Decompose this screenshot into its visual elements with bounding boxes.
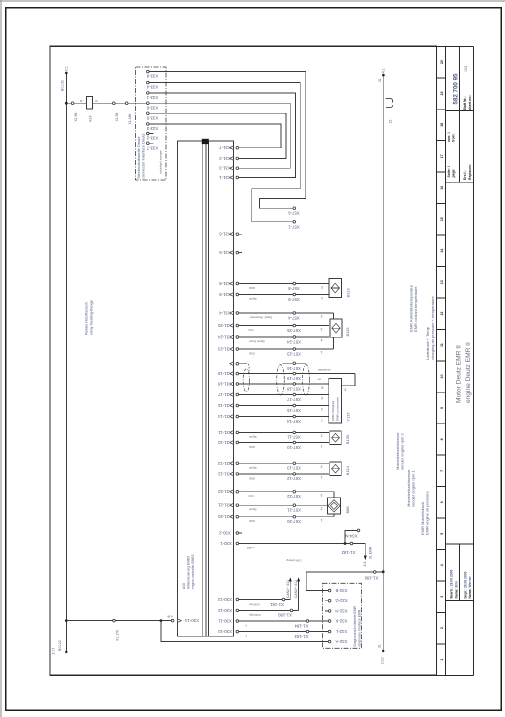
A40 connector cap bbox=[202, 139, 209, 144]
svg-text:X1-183: X1-183 bbox=[294, 634, 308, 639]
svg-text:Seite: 1: Seite: 1 bbox=[447, 165, 451, 177]
svg-text:9: 9 bbox=[440, 407, 444, 409]
svg-text:B130: B130 bbox=[345, 434, 350, 444]
node 31 top bbox=[382, 74, 385, 77]
svg-text:X32-K: X32-K bbox=[335, 619, 347, 624]
junction X34-N branch bbox=[344, 542, 347, 545]
svg-text:1: 1 bbox=[320, 350, 322, 354]
svg-text:EMR Stellglied: EMR Stellglied bbox=[331, 400, 335, 421]
svg-text:CAN2+ 4:11: CAN2+ 4:11 bbox=[294, 580, 298, 598]
A40 connector trunk line bbox=[232, 141, 234, 636]
svg-text:Replaces:: Replaces: bbox=[468, 164, 472, 180]
svg-text:X57-6: X57-6 bbox=[288, 211, 300, 216]
svg-text:page:: page: bbox=[451, 168, 455, 177]
svg-text:CAN2− 4:11: CAN2− 4:11 bbox=[286, 580, 290, 598]
svg-text:X57-14: X57-14 bbox=[286, 419, 300, 424]
svg-text:X31-11: X31-11 bbox=[218, 430, 232, 435]
svg-text:5: 5 bbox=[440, 533, 444, 535]
svg-text:6: 6 bbox=[440, 501, 444, 503]
svg-text:18: 18 bbox=[440, 123, 444, 127]
svg-text:2:17: 2:17 bbox=[52, 648, 56, 655]
svg-text:31 EMR: 31 EMR bbox=[368, 546, 372, 559]
pin X30-11 wire to X32-K bbox=[218, 619, 329, 627]
svg-text:X31-3: X31-3 bbox=[219, 166, 231, 171]
svg-text:X31-25: X31-25 bbox=[217, 323, 231, 328]
svg-text:X30-14: X30-14 bbox=[184, 618, 198, 623]
svg-text:connector interface Deutz: connector interface Deutz bbox=[140, 133, 145, 179]
svg-text:X1:186: X1:186 bbox=[128, 114, 132, 125]
svg-text:X57-15: X57-15 bbox=[286, 408, 300, 413]
title/scale column borders bbox=[445, 46, 447, 675]
svg-text:13: 13 bbox=[440, 280, 444, 284]
svg-text:X33-6: X33-6 bbox=[146, 105, 158, 110]
svg-text:GND: GND bbox=[249, 352, 255, 356]
wire battery to X30-14 bbox=[66, 620, 171, 622]
svg-text:EMR engine oil pressure: EMR engine oil pressure bbox=[425, 490, 430, 535]
node B01 top bbox=[65, 72, 68, 75]
svg-text:X33-3: X33-3 bbox=[146, 126, 158, 131]
pin X31-6 (stub) bbox=[219, 232, 242, 237]
connector pin X1:96 (right) bbox=[113, 102, 116, 105]
Y137 pin5 elbow bbox=[341, 374, 355, 386]
svg-text:X32-G: X32-G bbox=[335, 598, 348, 603]
node B01 bottom bbox=[65, 651, 67, 653]
svg-text:CAN-Leitung: CAN-Leitung bbox=[286, 559, 301, 563]
svg-text:X31-2: X31-2 bbox=[219, 156, 231, 161]
connector pin X1:179 bbox=[113, 619, 116, 622]
B88 fan-in elbows bbox=[333, 492, 335, 498]
actuator Y137 rows bbox=[217, 371, 355, 381]
svg-text:X31-21: X31-21 bbox=[217, 503, 231, 508]
svg-text:17: 17 bbox=[440, 154, 444, 158]
svg-text:2: 2 bbox=[321, 285, 323, 289]
svg-text:X57-10: X57-10 bbox=[286, 445, 300, 450]
svg-text:EMR coolant temperature: EMR coolant temperature bbox=[413, 286, 418, 332]
connector pin X1-183 bbox=[306, 630, 309, 633]
svg-text:3: 3 bbox=[320, 327, 322, 331]
svg-text:X31-7: X31-7 bbox=[219, 145, 231, 150]
svg-text:Name: Werner: Name: Werner bbox=[468, 575, 472, 598]
title block cell dividers bbox=[446, 110, 474, 112]
svg-text:Motorsteuerung EMR2: Motorsteuerung EMR2 bbox=[186, 556, 190, 589]
svg-text:2: 2 bbox=[320, 434, 322, 438]
svg-text:X57-12: X57-12 bbox=[286, 476, 300, 481]
junction at ECU supply wire bbox=[65, 619, 68, 622]
svg-text:X30-12: X30-12 bbox=[217, 608, 231, 613]
oil pressure sensor B88 bbox=[320, 493, 349, 522]
drawing frame bbox=[50, 46, 437, 675]
svg-text:X33-1: X33-1 bbox=[146, 95, 158, 100]
connector pin X1-181 bbox=[282, 598, 285, 601]
connector pin X57-1 bbox=[288, 221, 300, 230]
A40 internal connector lines bbox=[201, 141, 203, 636]
arrow down 31 EMR bbox=[364, 556, 367, 561]
pin X31-3 bbox=[219, 166, 239, 171]
svg-text:B115: B115 bbox=[345, 327, 350, 337]
connector pin X1:186 bbox=[125, 102, 128, 105]
svg-text:16: 16 bbox=[440, 186, 444, 190]
svg-text:X57-18: X57-18 bbox=[286, 386, 300, 391]
svg-text:B88: B88 bbox=[345, 506, 350, 514]
pin X30-2 (stub) bbox=[219, 531, 242, 536]
svg-text:Bearb.: 28.06.2006: Bearb.: 28.06.2006 bbox=[450, 570, 454, 599]
connector pin X1-186 bbox=[374, 571, 377, 574]
connector pin X1-184 bbox=[306, 620, 309, 623]
svg-text:Signal: Signal bbox=[249, 466, 257, 470]
svg-text:X31-13: X31-13 bbox=[217, 461, 231, 466]
svg-text:CAN high: CAN high bbox=[249, 613, 261, 617]
connector pin X33-6 bbox=[146, 102, 158, 110]
svg-text:X31-22: X31-22 bbox=[217, 489, 231, 494]
svg-text:diagnosis interface EMR: diagnosis interface EMR bbox=[358, 609, 362, 646]
svg-text:engine-controller EMR2: engine-controller EMR2 bbox=[191, 554, 195, 589]
frame column scale numbers bbox=[440, 60, 444, 661]
svg-text:X31-5: X31-5 bbox=[219, 250, 231, 255]
pin X30-12 CAN wire bbox=[217, 608, 298, 617]
svg-text:11: 11 bbox=[440, 343, 444, 347]
svg-text:2: 2 bbox=[440, 627, 444, 629]
svg-text:GND: GND bbox=[249, 286, 255, 290]
svg-text:X32-L: X32-L bbox=[335, 629, 347, 634]
branch to pin X34-N bbox=[345, 531, 357, 544]
svg-text:In: In bbox=[320, 385, 323, 389]
svg-text:sw: sw bbox=[318, 378, 321, 381]
svg-text:X32-H: X32-H bbox=[335, 608, 347, 613]
svg-text:15: 15 bbox=[440, 217, 444, 221]
svg-text:X31-23: X31-23 bbox=[217, 347, 231, 352]
svg-text:X30-1: X30-1 bbox=[220, 541, 232, 546]
pin X31-1 bbox=[219, 175, 239, 180]
svg-text:X30-11: X30-11 bbox=[218, 619, 232, 624]
svg-text:X57-9: X57-9 bbox=[288, 297, 300, 302]
svg-text:X31-19: X31-19 bbox=[217, 371, 231, 376]
pin X30-10 wire to X32-L bbox=[217, 629, 328, 637]
oil pressure sensor B88 rows bbox=[217, 489, 334, 499]
svg-text:Diagnoseschnittstelle EMR: Diagnoseschnittstelle EMR bbox=[353, 605, 357, 646]
svg-text:X31-18: X31-18 bbox=[217, 382, 231, 387]
charge pressure sensor B115 bbox=[320, 314, 350, 354]
svg-text:GND: GND bbox=[249, 476, 255, 480]
svg-text:14: 14 bbox=[440, 249, 444, 253]
svg-text:B114: B114 bbox=[345, 465, 350, 475]
svg-text:von: 1: von: 1 bbox=[447, 132, 451, 142]
wire X33 to X31-7 loop bbox=[149, 124, 281, 148]
svg-text:B113: B113 bbox=[345, 288, 350, 298]
svg-text:X32-B: X32-B bbox=[335, 588, 347, 593]
svg-text:Signal_Druck: Signal_Druck bbox=[248, 340, 265, 344]
svg-text:X33-4: X33-4 bbox=[146, 85, 158, 90]
svg-text:Name: Birk: Name: Birk bbox=[454, 581, 458, 599]
svg-text:1: 1 bbox=[320, 475, 322, 479]
svg-text:sheet no.:: sheet no.: bbox=[468, 94, 472, 110]
diagnosis pin X32-K bbox=[328, 619, 347, 624]
svg-text:X1-181: X1-181 bbox=[269, 602, 283, 607]
wire X33 to X31-2 loop bbox=[149, 113, 286, 158]
svg-text:4: 4 bbox=[320, 338, 322, 342]
svg-text:X57-16: X57-16 bbox=[286, 366, 300, 371]
svg-text:B01:22: B01:22 bbox=[58, 640, 62, 651]
svg-text:20: 20 bbox=[440, 60, 444, 64]
svg-text:Blatt Nr.:: Blatt Nr.: bbox=[463, 96, 467, 110]
svg-text:Y137: Y137 bbox=[346, 412, 351, 422]
engine controller A40 box bbox=[178, 141, 234, 636]
diagnosis pin X32-B bbox=[328, 588, 347, 593]
pin X31-7 bbox=[219, 145, 239, 150]
svg-text:Signal: Signal bbox=[249, 435, 257, 439]
svg-text:ser.weiss: ser.weiss bbox=[320, 368, 331, 371]
svg-text:1: 1 bbox=[320, 518, 322, 522]
svg-text:X33-5: X33-5 bbox=[146, 115, 158, 120]
svg-text:+ wire: + wire bbox=[246, 546, 254, 550]
connector pin X33-5 bbox=[146, 112, 158, 120]
wire X33 to X31-3 loop bbox=[149, 103, 290, 168]
svg-text:Signal: Signal bbox=[249, 508, 257, 512]
svg-text:X31-8: X31-8 bbox=[219, 281, 231, 286]
svg-text:X57-4: X57-4 bbox=[288, 315, 300, 320]
svg-text:K14: K14 bbox=[89, 115, 93, 121]
svg-text:B01:32: B01:32 bbox=[61, 80, 65, 91]
svg-text:sender engine rpm 1: sender engine rpm 1 bbox=[411, 470, 416, 507]
svg-text:charging air pressure + temper: charging air pressure + temperature bbox=[430, 296, 435, 360]
svg-text:X1:96: X1:96 bbox=[115, 113, 119, 122]
svg-text:X57-1: X57-1 bbox=[288, 224, 300, 229]
svg-text:EMR commander: EMR commander bbox=[336, 397, 340, 421]
diagnosis pin X32-H bbox=[325, 608, 347, 613]
svg-text:X31-6: X31-6 bbox=[219, 232, 231, 237]
diagnosis pin X32-A bbox=[328, 639, 347, 644]
connector pin X33-1 bbox=[146, 92, 158, 100]
connector pin X1:96 (left) bbox=[71, 102, 74, 105]
svg-text:1: 1 bbox=[440, 659, 444, 661]
svg-text:Signal: Signal bbox=[249, 297, 257, 301]
scan edge artifact line top bbox=[0, 0, 505, 2]
svg-text:X57-25: X57-25 bbox=[286, 328, 300, 333]
svg-text:from:: from: bbox=[451, 133, 455, 142]
svg-text:X31-1: X31-1 bbox=[219, 175, 231, 180]
svg-text:X1-182: X1-182 bbox=[341, 550, 355, 555]
svg-text:19: 19 bbox=[440, 92, 444, 96]
svg-text:X32-A: X32-A bbox=[335, 639, 347, 644]
svg-text:Ers.f.:: Ers.f.: bbox=[463, 170, 467, 180]
svg-text:X31-9: X31-9 bbox=[219, 292, 231, 297]
wire X32-B to ground rail bbox=[306, 572, 382, 591]
svg-text:X57-24: X57-24 bbox=[286, 339, 300, 344]
svg-text:X31-15: X31-15 bbox=[217, 403, 231, 408]
svg-text:2: 2 bbox=[320, 314, 322, 318]
svg-text:X33-8: X33-8 bbox=[146, 74, 158, 79]
svg-text:sender engine rpm 2: sender engine rpm 2 bbox=[400, 433, 405, 470]
connector pin X1-180 bbox=[290, 609, 293, 612]
svg-text:X1:96: X1:96 bbox=[74, 113, 78, 122]
svg-text:relay heating-flange: relay heating-flange bbox=[88, 299, 93, 335]
cable shield ellipses bbox=[243, 369, 249, 392]
svg-text:2: 2 bbox=[320, 464, 322, 468]
svg-text:X31-17: X31-17 bbox=[217, 392, 231, 397]
svg-text:10: 10 bbox=[440, 375, 444, 379]
svg-text:GND: GND bbox=[249, 519, 255, 523]
frame column scale ticks bbox=[437, 78, 446, 644]
svg-text:Motor Deutz EMR II: Motor Deutz EMR II bbox=[455, 345, 462, 403]
diagnosis pin X32-G bbox=[325, 598, 348, 603]
svg-text:X57-20: X57-20 bbox=[286, 519, 300, 524]
svg-text:1: 1 bbox=[320, 444, 322, 448]
CAN2+ rise bbox=[298, 582, 300, 611]
supply rail B01 wire bbox=[65, 73, 67, 652]
svg-text:zukünftige Leitungen: zukünftige Leitungen bbox=[158, 150, 162, 174]
connector pin X33-8 bbox=[146, 70, 158, 78]
connector pin X33-4 bbox=[146, 81, 158, 89]
B115 fan-in elbows bbox=[333, 313, 335, 319]
junction rail 31 bbox=[382, 570, 385, 573]
svg-text:6: 6 bbox=[321, 396, 323, 400]
svg-text:22: 22 bbox=[389, 120, 393, 124]
svg-text:2:20: 2:20 bbox=[381, 657, 385, 664]
svg-text:m.fltr: m.fltr bbox=[167, 615, 173, 619]
svg-text:4:1: 4:1 bbox=[382, 68, 386, 73]
connector pin X33-7 bbox=[146, 142, 158, 150]
wire X33 to X31-1 loop bbox=[149, 93, 296, 178]
svg-text:X1-184: X1-184 bbox=[294, 623, 308, 628]
pin X31-2 bbox=[219, 156, 239, 161]
svg-text:7: 7 bbox=[321, 418, 323, 422]
svg-text:X30-2: X30-2 bbox=[219, 531, 231, 536]
svg-text:X57-11: X57-11 bbox=[287, 435, 301, 440]
svg-text:X31-10: X31-10 bbox=[217, 440, 231, 445]
svg-text:X57-13: X57-13 bbox=[286, 466, 300, 471]
svg-text:X34-N: X34-N bbox=[345, 534, 357, 539]
diagnosis pin X32-L bbox=[328, 629, 347, 634]
svg-text:31: 31 bbox=[378, 644, 382, 648]
svg-text:X31-24: X31-24 bbox=[217, 335, 231, 340]
diagnosis interface box (dash-dot) bbox=[323, 583, 362, 648]
temperature sensor B113 bbox=[321, 279, 350, 300]
svg-text:engine Deutz EMR II: engine Deutz EMR II bbox=[465, 342, 472, 403]
CAN2- rise bbox=[289, 582, 291, 600]
svg-text:31: 31 bbox=[378, 78, 382, 82]
svg-text:8: 8 bbox=[440, 438, 444, 440]
svg-text:003: 003 bbox=[464, 66, 468, 72]
scan edge artifact line left bbox=[0, 0, 2, 717]
svg-text:X33-2: X33-2 bbox=[146, 136, 158, 141]
svg-text:VCC: VCC bbox=[248, 328, 254, 332]
svg-text:2: 2 bbox=[321, 407, 323, 411]
svg-text:2: 2 bbox=[320, 507, 322, 511]
svg-text:X31-20: X31-20 bbox=[217, 514, 231, 519]
relay K14 bbox=[86, 97, 92, 110]
svg-text:X31-12: X31-12 bbox=[217, 471, 231, 476]
pin X30-1 wire to term.31 EMR bbox=[220, 541, 350, 550]
svg-text:3: 3 bbox=[320, 493, 322, 497]
actuator Y137 bbox=[320, 379, 350, 423]
separation symbol on rail bbox=[386, 98, 393, 102]
connector pin X33-2 bbox=[146, 132, 158, 140]
svg-text:Gepr.: 28.06.2006: Gepr.: 28.06.2006 bbox=[463, 571, 467, 598]
svg-text:X1-186: X1-186 bbox=[364, 576, 378, 581]
svg-text:X30-13: X30-13 bbox=[217, 597, 231, 602]
wire relay feed bbox=[66, 102, 146, 104]
svg-text:2:1: 2:1 bbox=[65, 66, 69, 71]
wire to X32-A bbox=[161, 621, 328, 642]
svg-text:VCC: VCC bbox=[248, 494, 254, 498]
connector pin X33-3 bbox=[146, 123, 158, 131]
speed sensor B130 rows bbox=[218, 430, 329, 440]
sensor B115 rows bbox=[219, 311, 334, 321]
shield pin X57-16 bbox=[283, 362, 306, 371]
svg-text:582 700 95: 582 700 95 bbox=[452, 73, 459, 105]
junction at relay feed bbox=[65, 102, 68, 105]
svg-text:X31-4: X31-4 bbox=[219, 311, 231, 316]
wire X33-4 to X57-1 bbox=[149, 83, 300, 222]
svg-text:3: 3 bbox=[440, 596, 444, 598]
speed sensor B130 bbox=[320, 431, 349, 448]
pin X30-14 on A40 bbox=[171, 619, 174, 622]
svg-text:X57-17: X57-17 bbox=[286, 397, 300, 402]
wire X33-8 to X57-6 bbox=[149, 72, 306, 209]
svg-text:7: 7 bbox=[440, 470, 444, 472]
speed sensor B114 rows bbox=[217, 461, 329, 471]
ground rail 31 bbox=[382, 75, 384, 651]
svg-text:X31-14: X31-14 bbox=[217, 414, 231, 419]
svg-text:1: 1 bbox=[321, 296, 323, 300]
junction to diagnosis ground bbox=[160, 619, 163, 622]
connector pin X57-6 bbox=[288, 207, 300, 216]
pin X31-5 (stub) bbox=[219, 250, 242, 255]
svg-text:X33-7: X33-7 bbox=[146, 145, 158, 150]
svg-text:X57-22: X57-22 bbox=[286, 494, 300, 499]
svg-text:Signal_Temperatur: Signal_Temperatur bbox=[250, 316, 273, 320]
svg-text:A40: A40 bbox=[182, 583, 186, 589]
svg-text:X57-21: X57-21 bbox=[286, 508, 300, 513]
node 31 bottom bbox=[382, 650, 384, 652]
speed sensor B114 bbox=[320, 462, 349, 479]
pin X30-13 CAN wire bbox=[217, 597, 290, 606]
svg-text:X57-8: X57-8 bbox=[288, 286, 300, 291]
svg-text:2:4: 2:4 bbox=[363, 562, 367, 567]
connector pin X1-182 bbox=[350, 542, 353, 545]
svg-text:X1:179: X1:179 bbox=[115, 630, 119, 641]
sensor B113 rows bbox=[219, 281, 329, 291]
connector interface box X33 (dash-dot) bbox=[136, 67, 167, 180]
svg-text:CAN low: CAN low bbox=[249, 602, 260, 606]
svg-text:5: 5 bbox=[344, 387, 346, 391]
svg-text:X30-10: X30-10 bbox=[217, 629, 231, 634]
shield drain pin X31-16 bbox=[230, 362, 249, 374]
svg-text:X57-19: X57-19 bbox=[286, 376, 300, 381]
svg-text:GND: GND bbox=[249, 445, 255, 449]
svg-text:X57-23: X57-23 bbox=[286, 351, 300, 356]
wire drop to 31 EMR bbox=[353, 544, 365, 556]
svg-text:X1-180: X1-180 bbox=[277, 613, 291, 618]
svg-text:12: 12 bbox=[440, 312, 444, 316]
svg-text:4: 4 bbox=[440, 564, 444, 566]
